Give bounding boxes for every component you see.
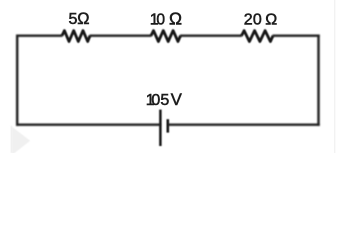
svg-text:0: 0 — [156, 11, 165, 28]
label R1 value 5 ohm — [69, 10, 90, 28]
svg-text:5: 5 — [160, 92, 169, 109]
wire top-left segment — [16, 35, 63, 37]
svg-text:V: V — [171, 90, 182, 109]
wires group (soft gray) — [16, 35, 320, 126]
svg-text:Ω: Ω — [77, 10, 89, 28]
wire bottom-right segment — [168, 123, 320, 125]
resistor R2 (10 ohm) — [151, 31, 181, 42]
resistor R1 (5 ohm) — [62, 31, 90, 42]
label R3 value 20 ohm — [244, 11, 278, 28]
wire left side — [16, 35, 18, 126]
battery V1 long plate — [159, 110, 162, 146]
svg-text:20: 20 — [244, 11, 262, 28]
faint scan line right edge — [334, 0, 335, 153]
svg-text:0: 0 — [151, 92, 160, 109]
wire between R1 and R2 — [90, 35, 152, 37]
wire between R2 and R3 — [180, 35, 242, 37]
wire top-right segment — [273, 35, 320, 37]
svg-text:Ω: Ω — [265, 11, 277, 28]
svg-text:Ω: Ω — [169, 8, 182, 28]
label R2 value 10 ohm — [150, 8, 182, 28]
components group (dark) — [62, 31, 273, 146]
battery V1 short plate — [167, 119, 170, 132]
wire right side — [317, 35, 319, 126]
wire bottom-left segment — [16, 123, 160, 125]
watermark triangle bottom-left — [11, 126, 30, 155]
label battery value 105V — [146, 90, 182, 109]
resistor R3 (20 ohm) — [242, 31, 274, 42]
